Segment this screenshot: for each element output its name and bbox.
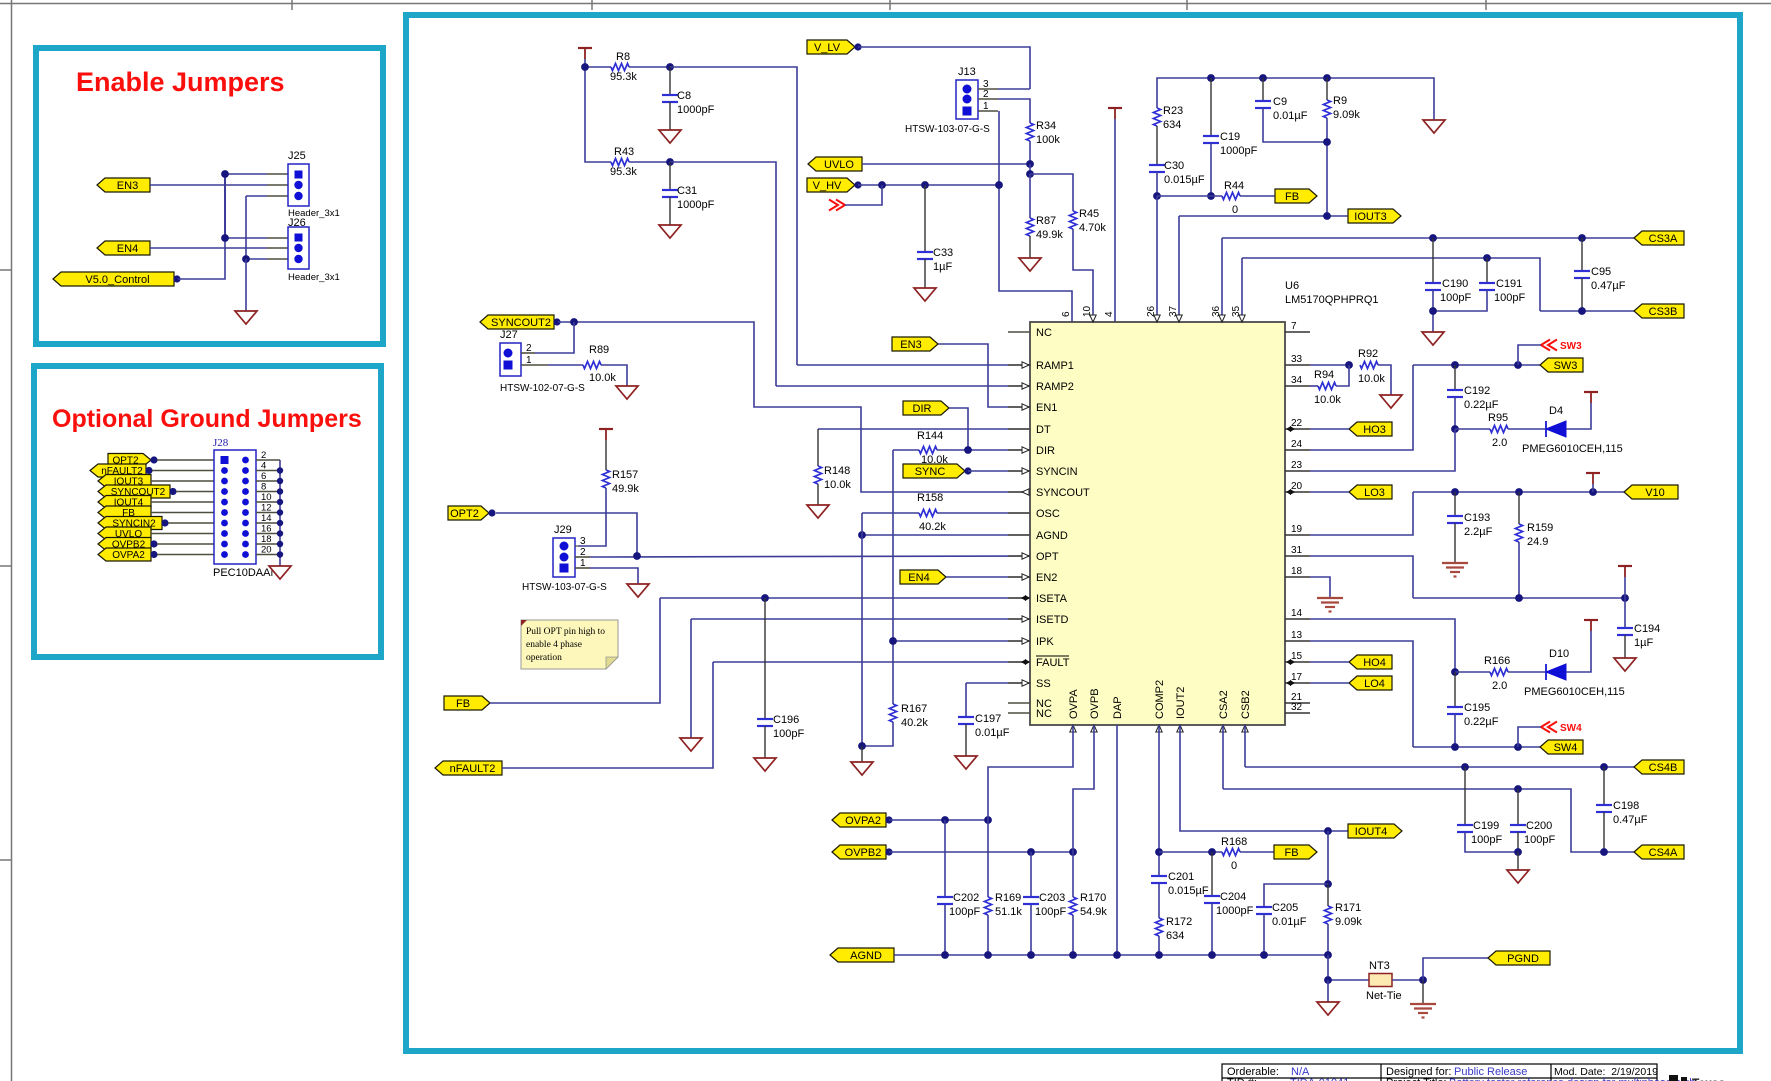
wire ISETD row (691, 618, 1030, 620)
wire SW4 chevron stem (1518, 727, 1541, 747)
svg-text:C193: C193 (1464, 512, 1490, 524)
junction OPT2/J29 pin2 (633, 552, 641, 560)
svg-text:49.9k: 49.9k (612, 483, 639, 495)
net flag OVPB2 (832, 845, 893, 859)
svg-text:RAMP1: RAMP1 (1036, 360, 1074, 372)
power rail stub (R157) (599, 429, 613, 440)
svg-text:C198: C198 (1613, 800, 1639, 812)
svg-text:RAMP2: RAMP2 (1036, 381, 1074, 393)
wire C194 to gnd (1624, 635, 1626, 658)
svg-text:R87: R87 (1036, 215, 1056, 227)
ground (C194) (1614, 658, 1636, 671)
ground (J29 pin1) (627, 584, 649, 597)
net flag SYNC (903, 464, 972, 478)
power rail stub (V10) (1586, 473, 1600, 492)
svg-text:D4: D4 (1549, 405, 1563, 417)
svg-text:R159: R159 (1527, 522, 1553, 534)
net flag HO4 (1349, 655, 1392, 669)
capacitor C95 (1574, 238, 1626, 292)
svg-text:NC: NC (1036, 708, 1052, 720)
wire R158 left (862, 512, 919, 514)
svg-text:10.0k: 10.0k (589, 372, 616, 384)
wire pwr to C194 node (1624, 577, 1626, 628)
net flag SYNCIN2 (gnd jumpers) (98, 517, 169, 530)
U6 top pin numbers (1061, 305, 1245, 322)
wire IOUT4 to J28 (151, 501, 214, 503)
wire R8 to junction (629, 66, 670, 68)
ground (R89) (616, 386, 638, 399)
svg-text:Net-Tie: Net-Tie (1366, 990, 1402, 1002)
resistor R8 (610, 51, 637, 83)
junction AGND/R158 col (858, 531, 866, 539)
junction OVPA2/R169 (984, 816, 992, 824)
svg-text:R89: R89 (589, 344, 609, 356)
svg-text:nFAULT2: nFAULT2 (450, 763, 496, 775)
svg-text:18: 18 (261, 534, 272, 545)
svg-text:R144: R144 (917, 430, 943, 442)
resistor R172 (1155, 916, 1192, 942)
svg-text:49.9k: 49.9k (1036, 229, 1063, 241)
svg-text:operation: operation (526, 653, 562, 663)
wire R169 col (987, 820, 989, 897)
net flag CS4A (1634, 845, 1684, 859)
wire C190 C191 gnd row (1433, 290, 1487, 311)
junction AGND row (1260, 951, 1268, 959)
wire J29 pin1 to gnd (590, 568, 638, 584)
net flag CS3A (1634, 231, 1684, 245)
net flag OVPB2 (gnd jumpers) (98, 538, 158, 551)
svg-text:NC: NC (1036, 327, 1052, 339)
svg-text:COMP2: COMP2 (1154, 680, 1166, 719)
junction OVPB2/C203 (1027, 848, 1035, 856)
wire R166 left (1455, 671, 1490, 673)
svg-text:IOUT3: IOUT3 (1354, 211, 1386, 223)
svg-text:D10: D10 (1549, 648, 1569, 660)
wire J13 pin3 (998, 88, 1030, 90)
net flag EN4 (enable box) (97, 241, 150, 255)
net flag SYNCOUT2 (gnd jumpers) (98, 485, 177, 498)
svg-text:SS: SS (1036, 678, 1051, 690)
power rail stub (R8) (578, 48, 592, 59)
capacitor C193 (1447, 492, 1493, 538)
junction J28 gnd (277, 467, 283, 473)
wire nFAULT2 to J28 (152, 470, 214, 472)
svg-text:13: 13 (1291, 630, 1303, 641)
resistor R148 (814, 465, 851, 491)
svg-text:R158: R158 (917, 492, 943, 504)
wire pin13 riser (1310, 641, 1413, 747)
net flag IOUT4 (1348, 824, 1402, 838)
wire pin4 vertical (1114, 119, 1116, 322)
svg-text:19: 19 (1291, 524, 1303, 535)
main schematic region box (406, 15, 1740, 1051)
ground (R158/R167) (851, 762, 873, 775)
svg-text:EN3: EN3 (117, 180, 138, 192)
wire OVPA2 row (889, 819, 988, 821)
svg-text:R168: R168 (1221, 836, 1247, 848)
net flag IOUT3 (1348, 209, 1401, 223)
junction CS3A/C95 (1578, 234, 1586, 242)
wire SW3 chevron stem (1518, 345, 1541, 365)
resistor R167 (889, 703, 928, 729)
capacitor C33 (917, 185, 953, 273)
svg-text:0.47µF: 0.47µF (1613, 814, 1648, 826)
enable jumpers region box (36, 48, 383, 344)
ground (enable box) (235, 311, 257, 324)
svg-text:DIR: DIR (1036, 445, 1055, 457)
svg-text:CS3B: CS3B (1649, 306, 1678, 318)
svg-text:1000pF: 1000pF (677, 199, 715, 211)
ground (C33) (914, 288, 936, 301)
svg-text:OVPA2: OVPA2 (845, 815, 881, 827)
junction J26 pin3 (242, 255, 250, 263)
wire C190 bottom (1432, 290, 1434, 332)
svg-text:34: 34 (1291, 375, 1303, 386)
off-page connector SW4 (1541, 722, 1582, 735)
wire pin17 to LO4 (1310, 682, 1349, 684)
wire FAULT row (713, 661, 1030, 663)
resistor R158 (917, 492, 946, 533)
wire EN4 to J26 pin2 (150, 247, 267, 249)
wire OVPB2 to J28 (157, 543, 214, 545)
svg-text:C30: C30 (1164, 160, 1184, 172)
svg-text:95.3k: 95.3k (610, 71, 637, 83)
resistor R34 (1026, 120, 1060, 146)
net flag V_HV (807, 178, 862, 192)
wire pin36 vertical (1221, 238, 1223, 322)
wire C19 to node (1210, 143, 1212, 196)
wire EN4 to EN2 (946, 576, 1030, 578)
wire UVLO to J28 (151, 533, 214, 535)
U6 bottom pin glyphs (1070, 725, 1248, 732)
net flag OPT2 (448, 506, 496, 520)
svg-text:SW3: SW3 (1554, 360, 1578, 372)
wire R159 down (1518, 542, 1520, 598)
svg-text:R171: R171 (1335, 902, 1361, 914)
junction rail C19 (1207, 74, 1215, 82)
wire V_LV to J13 pin3 (858, 47, 1030, 89)
net flag FB (ISETA) (444, 696, 490, 710)
svg-text:R170: R170 (1080, 892, 1106, 904)
net flag EN3 (enable box) (97, 178, 150, 192)
resistor R170 (1069, 892, 1107, 918)
capacitor C190 (1425, 238, 1471, 304)
wire IOUT3 to J28 (151, 480, 214, 482)
svg-text:J27: J27 (500, 329, 518, 341)
wire UVLO row (862, 163, 1030, 165)
J13 pin stubs (978, 89, 998, 111)
title Enable Jumpers (76, 67, 285, 97)
wire J28 ground bus (279, 460, 281, 566)
svg-text:NT3: NT3 (1369, 960, 1390, 972)
wire R44 to FB (1240, 195, 1275, 197)
wire pin35 row (1242, 258, 1540, 311)
junction AGND row (1208, 951, 1216, 959)
capacitor C31 (662, 162, 715, 211)
net flag SW3 (1540, 358, 1583, 372)
svg-text:7: 7 (1291, 321, 1297, 332)
wire comp node row (1157, 195, 1222, 197)
wire OPT row (590, 556, 1030, 557)
diode D4 PMEG6010CEH (1522, 405, 1623, 455)
resistor R89 (583, 344, 616, 384)
connector J28 PEC10DAAN (213, 437, 278, 579)
net flag OVPA2 (832, 813, 893, 827)
wire R157 to J29 pin3 (578, 488, 606, 546)
wire pin31 riser (1310, 556, 1413, 598)
junction rail C9 (1259, 74, 1267, 82)
svg-text:V_HV: V_HV (813, 180, 842, 192)
junction V10/R159 (1515, 488, 1523, 496)
wire D4 to pwr (1566, 403, 1591, 429)
svg-text:CS4A: CS4A (1649, 847, 1678, 859)
ground (comp rail) (1423, 120, 1445, 133)
junction J28 gnd (277, 520, 283, 526)
wire pwr to R157 (605, 440, 607, 470)
svg-text:SYNC: SYNC (915, 466, 946, 478)
wire C205 top (1264, 884, 1328, 907)
ground (C196) (754, 758, 776, 771)
svg-text:R94: R94 (1314, 369, 1334, 381)
svg-text:0.47µF: 0.47µF (1591, 280, 1626, 292)
wire R168 to FB (1240, 851, 1274, 853)
svg-text:C191: C191 (1496, 278, 1522, 290)
wire J25 pin3 vertical (245, 196, 247, 259)
junction C190 gnd (1429, 307, 1437, 315)
wire C205 bottom (1263, 914, 1265, 955)
wire IOUT3 row (1179, 215, 1348, 217)
svg-text:C33: C33 (933, 247, 953, 259)
svg-text:enable 4 phase: enable 4 phase (526, 640, 582, 650)
svg-text:V10: V10 (1645, 487, 1665, 499)
svg-text:10.0k: 10.0k (824, 479, 851, 491)
svg-text:AGND: AGND (1036, 530, 1068, 542)
junction row598/C194 (1621, 594, 1629, 602)
svg-text:FB: FB (1285, 191, 1299, 203)
svg-text:22: 22 (1291, 418, 1303, 429)
svg-text:HTSW-103-07-G-S: HTSW-103-07-G-S (905, 124, 990, 135)
net flag OPT2 (gnd jumpers) (108, 454, 158, 467)
svg-text:20: 20 (1291, 481, 1303, 492)
svg-text:IOUT4: IOUT4 (1355, 826, 1387, 838)
capacitor C202 (937, 892, 980, 918)
net flag nFAULT2 (gnd jumpers) (90, 464, 153, 477)
wire OVPA pin jog (988, 725, 1073, 820)
wire SW3 row (1413, 364, 1540, 366)
svg-text:9.09k: 9.09k (1335, 916, 1362, 928)
wire R43 to junction (629, 161, 670, 163)
svg-text:OVPB: OVPB (1089, 688, 1101, 719)
svg-text:C205: C205 (1272, 902, 1298, 914)
wire SS to C197 (965, 683, 967, 717)
svg-text:OVPA: OVPA (1068, 689, 1080, 719)
junction V_HV a (878, 181, 886, 189)
svg-text:3: 3 (580, 536, 586, 547)
svg-text:LM5170QPHPRQ1: LM5170QPHPRQ1 (1285, 294, 1379, 306)
wire R95 to D4 (1508, 428, 1546, 430)
svg-text:C195: C195 (1464, 702, 1490, 714)
svg-text:6: 6 (1061, 311, 1072, 317)
junction V10/C193 (1451, 488, 1459, 496)
svg-text:0.01µF: 0.01µF (1273, 110, 1308, 122)
no-connect chevron (V_HV) (829, 200, 845, 211)
svg-text:J13: J13 (958, 66, 976, 78)
svg-text:OVPB2: OVPB2 (845, 847, 882, 859)
svg-text:PEC10DAAN: PEC10DAAN (213, 567, 278, 579)
svg-text:54.9k: 54.9k (1080, 906, 1107, 918)
svg-text:4: 4 (1104, 311, 1115, 317)
svg-text:10: 10 (261, 492, 272, 503)
capacitor C30 (1149, 160, 1205, 186)
wire CS3A row (1222, 237, 1634, 239)
wire C30 to node (1156, 172, 1158, 196)
svg-text:C8: C8 (677, 90, 691, 102)
svg-text:20: 20 (261, 545, 272, 556)
svg-text:C19: C19 (1220, 131, 1240, 143)
svg-text:0: 0 (1231, 860, 1237, 872)
wire pin20 to LO3 (1310, 491, 1349, 493)
svg-text:J28: J28 (213, 437, 229, 449)
junction J28 gnd (277, 551, 283, 557)
svg-text:J29: J29 (554, 524, 572, 536)
svg-text:Enable Jumpers: Enable Jumpers (76, 67, 285, 97)
junction AGND row (1113, 951, 1121, 959)
wire R148 to gnd (817, 484, 819, 505)
resistor R23 (1153, 105, 1183, 131)
junction CS4B/C199 (1461, 763, 1469, 771)
wire OPT2 to J28 (157, 459, 214, 461)
ground (J28) (269, 566, 291, 579)
junction R8/C8 (666, 63, 674, 71)
earth ground (PGND) (1410, 1004, 1436, 1018)
wire C193 to earth (1454, 523, 1456, 563)
svg-text:PGND: PGND (1507, 953, 1539, 965)
svg-text:C194: C194 (1634, 623, 1660, 635)
svg-text:PMEG6010CEH,115: PMEG6010CEH,115 (1524, 686, 1625, 698)
wire R158 col down (861, 513, 863, 746)
svg-text:CS3A: CS3A (1649, 233, 1678, 245)
svg-text:ISETA: ISETA (1036, 593, 1068, 605)
op-amp U6 LM5170QPHPRQ1 body (1030, 322, 1285, 725)
junction rail R9 (1323, 74, 1331, 82)
junction C200 gnd (1514, 848, 1522, 856)
junction SW3/C192 (1451, 361, 1459, 369)
wire R148 top (817, 429, 819, 466)
wire R170 col (1072, 852, 1074, 897)
wire R89 to gnd (601, 365, 627, 386)
wire COMP2 col b (1158, 883, 1160, 918)
ground (C8) (659, 130, 681, 143)
earth ground (pin18) (1317, 598, 1343, 612)
ground (R87) (1019, 258, 1041, 271)
wire SW4 row (1413, 746, 1540, 748)
svg-text:0.22µF: 0.22µF (1464, 716, 1499, 728)
junction ISETA/C196 (761, 594, 769, 602)
junction gnd node (R167) (858, 742, 866, 750)
wire junction to RAMP1 corner (670, 67, 797, 365)
wire OPT2 to OPT row (496, 513, 637, 556)
wire comp rail (1157, 78, 1434, 120)
wire R167 to gnd node (862, 722, 893, 746)
wire C199/C200 gnd row (1465, 832, 1518, 852)
capacitor C198 (1596, 767, 1648, 826)
svg-text:C204: C204 (1220, 891, 1246, 903)
resistor R95 (1488, 412, 1508, 449)
pin stub (267, 247, 288, 249)
junction IOUT3 (1323, 212, 1331, 220)
wire V_HV row (858, 184, 999, 186)
svg-text:SW4: SW4 (1560, 723, 1582, 734)
svg-text:18: 18 (1291, 566, 1303, 577)
junction J26 pin1 bus (221, 234, 229, 242)
sheet border left (0, 0, 12, 1081)
junction AGND row (984, 951, 992, 959)
svg-text:1000pF: 1000pF (677, 104, 715, 116)
wire FB to J28 (151, 512, 214, 514)
svg-text:R8: R8 (616, 51, 630, 63)
capacitor C199 (1457, 767, 1502, 846)
svg-text:OPT: OPT (1036, 551, 1059, 563)
pin stub (267, 258, 288, 260)
pin stub (267, 237, 288, 239)
pin stub (267, 184, 288, 186)
wire C202 col b (944, 904, 946, 955)
resistor R9 (1323, 78, 1360, 121)
resistor R87 (1026, 215, 1063, 241)
junction V_HV b (921, 181, 929, 189)
svg-text:1µF: 1µF (1634, 637, 1653, 649)
resistor R44 (1222, 180, 1244, 216)
svg-text:2: 2 (261, 450, 266, 461)
capacitor C195 (1447, 672, 1499, 728)
wire J25 pin3 stub (246, 195, 267, 197)
wire to J25 pin1 (225, 173, 267, 175)
capacitor C201 (1151, 871, 1209, 897)
wire pin34 to R94 (1310, 385, 1318, 387)
svg-text:2.0: 2.0 (1492, 437, 1507, 449)
junction R171/C205 (1324, 880, 1332, 888)
J27 pin stubs (521, 353, 548, 365)
svg-text:0: 0 (1232, 204, 1238, 216)
wire IPK row (893, 640, 1030, 642)
wire pin33 to R92 (1310, 364, 1349, 366)
net flag CS3B (1634, 304, 1684, 318)
svg-text:SYNCOUT2: SYNCOUT2 (491, 317, 551, 329)
svg-text:R44: R44 (1224, 180, 1244, 192)
junction CS3B/C95 (1578, 307, 1586, 315)
wire C8 to gnd (669, 102, 671, 130)
connector J27 (500, 329, 585, 394)
capacitor C192 (1447, 365, 1499, 411)
net flag DIR (903, 401, 949, 415)
junction pin35/C191 (1483, 254, 1491, 262)
svg-text:DT: DT (1036, 424, 1051, 436)
wire to ground (enable box) (245, 259, 247, 311)
capacitor C204 (1204, 852, 1254, 917)
svg-text:32: 32 (1291, 702, 1303, 713)
net flag OVPA2 (gnd jumpers) (98, 548, 158, 561)
pin stub (267, 173, 288, 175)
svg-text:C192: C192 (1464, 385, 1490, 397)
junction J28 gnd (277, 541, 283, 547)
wire R87 to gnd (1029, 236, 1031, 258)
wire CSB2 riser (1244, 725, 1246, 767)
svg-text:C95: C95 (1591, 266, 1611, 278)
svg-text:R148: R148 (824, 465, 850, 477)
wire OVPB pin jog (1073, 725, 1094, 852)
wire D10 to pwr (1566, 631, 1591, 672)
svg-text:Texas: Texas (1692, 1076, 1725, 1081)
